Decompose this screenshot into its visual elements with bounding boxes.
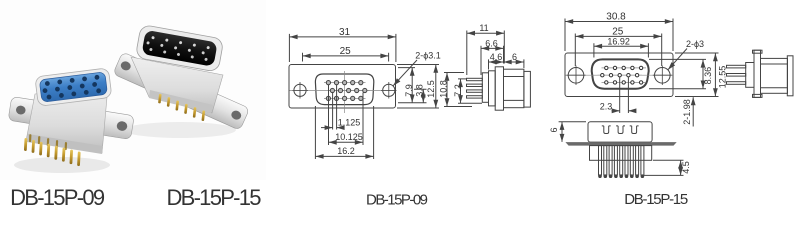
dim 16.2 extension lines [315, 106, 373, 159]
male flange plate [113, 52, 250, 130]
svg-text:4.5: 4.5 [681, 161, 691, 174]
female socket holes row3 [46, 88, 101, 100]
pin 2 side [467, 84, 483, 86]
svg-text:7.9: 7.9 [404, 84, 414, 97]
dim 12.55 extension lines [675, 53, 719, 97]
callout 2-1.98 [692, 97, 694, 126]
solder pin 5 [619, 146, 623, 178]
male flange hole right [230, 109, 243, 121]
slot 3 [630, 126, 639, 134]
solder pin 3 [609, 146, 613, 178]
female flange hole right [116, 121, 128, 132]
mounting hole left [568, 68, 584, 84]
insulator block [590, 146, 652, 161]
dim 6 extension line [559, 121, 586, 123]
dim 25 extension lines [575, 34, 661, 67]
dim 12.55 vertical [714, 53, 716, 96]
barrel wall lines [504, 77, 524, 101]
mounting hole right [383, 84, 395, 96]
dim 8.36 vertical [702, 60, 704, 89]
D-shell body outline bold [592, 59, 649, 88]
mounting hole right [655, 68, 671, 84]
flange outline front view DB-15P-15 [565, 53, 673, 97]
dim 7.2 vertical [460, 79, 462, 103]
insert block side [482, 73, 488, 103]
contact holes row 2 [330, 88, 367, 92]
right side extension lines [397, 65, 439, 109]
mating lip side15 [787, 56, 793, 96]
dim 3.8 vertical [422, 90, 424, 103]
dim 7.9 vertical [411, 68, 413, 103]
svg-text:30.8: 30.8 [606, 11, 626, 22]
solder pin 1 [598, 146, 602, 178]
svg-text:DB-15P-09: DB-15P-09 [366, 192, 428, 208]
dim 7.2 extension lines [458, 79, 482, 103]
row line 3 of 15 [602, 81, 647, 83]
male black insert [141, 30, 217, 67]
svg-text:4.6: 4.6 [490, 52, 503, 62]
dim 6 vertical [561, 122, 563, 142]
male pin dots row3 [149, 48, 208, 61]
dim 31 extension lines [289, 34, 396, 62]
svg-text:2.3: 2.3 [600, 101, 613, 111]
dim 11 [467, 32, 504, 34]
dim 1.125 [321, 127, 333, 129]
svg-text:6.6: 6.6 [485, 38, 498, 48]
hole crosshair right15 [653, 66, 672, 86]
svg-text:12.55: 12.55 [717, 66, 727, 89]
solder pin 7 [630, 146, 634, 178]
svg-text:16.92: 16.92 [607, 36, 630, 46]
dim 6.6 [481, 47, 503, 49]
male gold pins [157, 94, 207, 121]
pin b [727, 74, 746, 77]
dim 25 extension lines [303, 53, 389, 62]
svg-text:11: 11 [479, 23, 488, 33]
row line 2 [328, 90, 370, 92]
dim 2.3 [612, 110, 620, 112]
dim 1.125 extension lines [333, 85, 337, 130]
male pin dots row2 [146, 41, 205, 54]
flange cap bottom [753, 94, 763, 97]
dim 30.8 [565, 21, 673, 23]
pin c [727, 82, 746, 85]
contact pins row 1 [605, 66, 643, 69]
male flange hole left [119, 60, 132, 72]
hole crosshair right [381, 82, 397, 99]
male face rim [135, 24, 224, 72]
barrel side [504, 69, 524, 108]
dim 11 extension lines [467, 31, 505, 76]
svg-text:8.36: 8.36 [703, 67, 713, 85]
hole crosshair left [293, 82, 309, 99]
dim 8.36 extension lines [649, 59, 706, 88]
flange bar top view [565, 142, 676, 146]
svg-text:DB-15P-15: DB-15P-15 [624, 191, 688, 207]
pin 4 side [467, 96, 483, 98]
solder pin 2 [604, 146, 608, 178]
horizontal centerline [290, 89, 395, 91]
shadow female [14, 157, 110, 173]
svg-text:25: 25 [340, 46, 352, 57]
female socket holes row1 [45, 75, 100, 87]
D-shell body outline [315, 74, 373, 105]
svg-text:2-ϕ3.1: 2-ϕ3.1 [415, 51, 441, 61]
svg-text:10.8: 10.8 [439, 80, 449, 98]
contact holes row 1 [326, 81, 363, 85]
contact pins row 3 [605, 81, 643, 84]
svg-text:2-ϕ3: 2-ϕ3 [686, 39, 704, 49]
dim 16.2 [316, 155, 374, 157]
mid housing side [489, 71, 496, 106]
female flange hole left [15, 105, 26, 115]
mating lip side [524, 71, 531, 107]
slot 1 [602, 126, 611, 134]
flange outline front view DB-15P-09 [289, 65, 396, 109]
dim 10.125 extension lines [329, 85, 364, 145]
row line 1 [324, 82, 366, 84]
flange side15 [754, 50, 761, 97]
female gold pins [23, 134, 81, 166]
row line 3 [324, 97, 366, 99]
dim 31 [290, 36, 396, 38]
vertical centerline [344, 71, 346, 113]
svg-text:12.5: 12.5 [426, 80, 436, 98]
svg-text:1.125: 1.125 [338, 117, 361, 127]
dim 25 [303, 55, 389, 57]
solder pin 9 [641, 146, 645, 178]
svg-text:DB-15P-15: DB-15P-15 [167, 185, 262, 207]
dim 10.8 vertical [446, 73, 448, 107]
hole crosshair left15 [567, 66, 586, 86]
svg-text:6: 6 [512, 52, 517, 62]
flange side [495, 67, 503, 110]
dim 4.5 extension lines [644, 160, 684, 175]
dim 25 right [576, 35, 662, 37]
contact pins row 2 [601, 74, 639, 77]
dim 2.3 extension lines [620, 77, 629, 113]
male pin dots row1 [151, 36, 210, 49]
dim 4.6 extension lines [489, 59, 524, 69]
svg-text:10.125: 10.125 [335, 132, 363, 142]
female socket holes row2 [42, 82, 97, 94]
row line 1 of 15 [602, 67, 647, 69]
dim 12.5 vertical [435, 65, 437, 108]
svg-text:6: 6 [549, 127, 559, 132]
female flange plate [8, 96, 134, 139]
mounting hole left [294, 84, 306, 96]
female face rim [35, 68, 112, 107]
dim 10.125 [329, 141, 363, 143]
shadow male [124, 122, 236, 138]
solder pin 4 [614, 146, 618, 178]
solder pin 6 [625, 146, 629, 178]
photo backdrop [0, 0, 266, 180]
female shell body [26, 86, 108, 153]
flange cap top [753, 50, 763, 53]
barrel wall lines15 [761, 64, 788, 88]
body top view [588, 122, 652, 142]
svg-text:16.2: 16.2 [337, 146, 355, 156]
pin 1 side [467, 78, 483, 80]
row line 2 of 15 [598, 74, 643, 76]
dim 4.6 [489, 61, 504, 63]
insert block side15 [746, 63, 754, 88]
svg-text:31: 31 [339, 27, 351, 38]
svg-text:7.2: 7.2 [453, 84, 463, 97]
dim 6 side [504, 61, 524, 63]
dim 16.92 extension lines [594, 43, 649, 57]
svg-text:3.8: 3.8 [414, 84, 424, 97]
pin a [727, 65, 746, 68]
female blue insert [39, 72, 107, 102]
dim 30.8 extension lines [565, 19, 673, 52]
dim 16.92 [594, 45, 648, 47]
male shell body [131, 57, 223, 113]
pin 3 side [467, 90, 483, 92]
contact holes row 3 [326, 96, 363, 100]
svg-text:2-1.98: 2-1.98 [682, 99, 692, 125]
svg-text:DB-15P-09: DB-15P-09 [10, 185, 105, 207]
dim 10.8 extension lines [444, 73, 472, 107]
horizontal centerline15 [566, 74, 673, 76]
barrel side15 [761, 58, 788, 93]
slot 2 [616, 126, 625, 134]
solder pin 8 [635, 146, 639, 178]
dim 4.5 vertical [680, 161, 682, 176]
dim 6.6 extension line [481, 46, 504, 75]
